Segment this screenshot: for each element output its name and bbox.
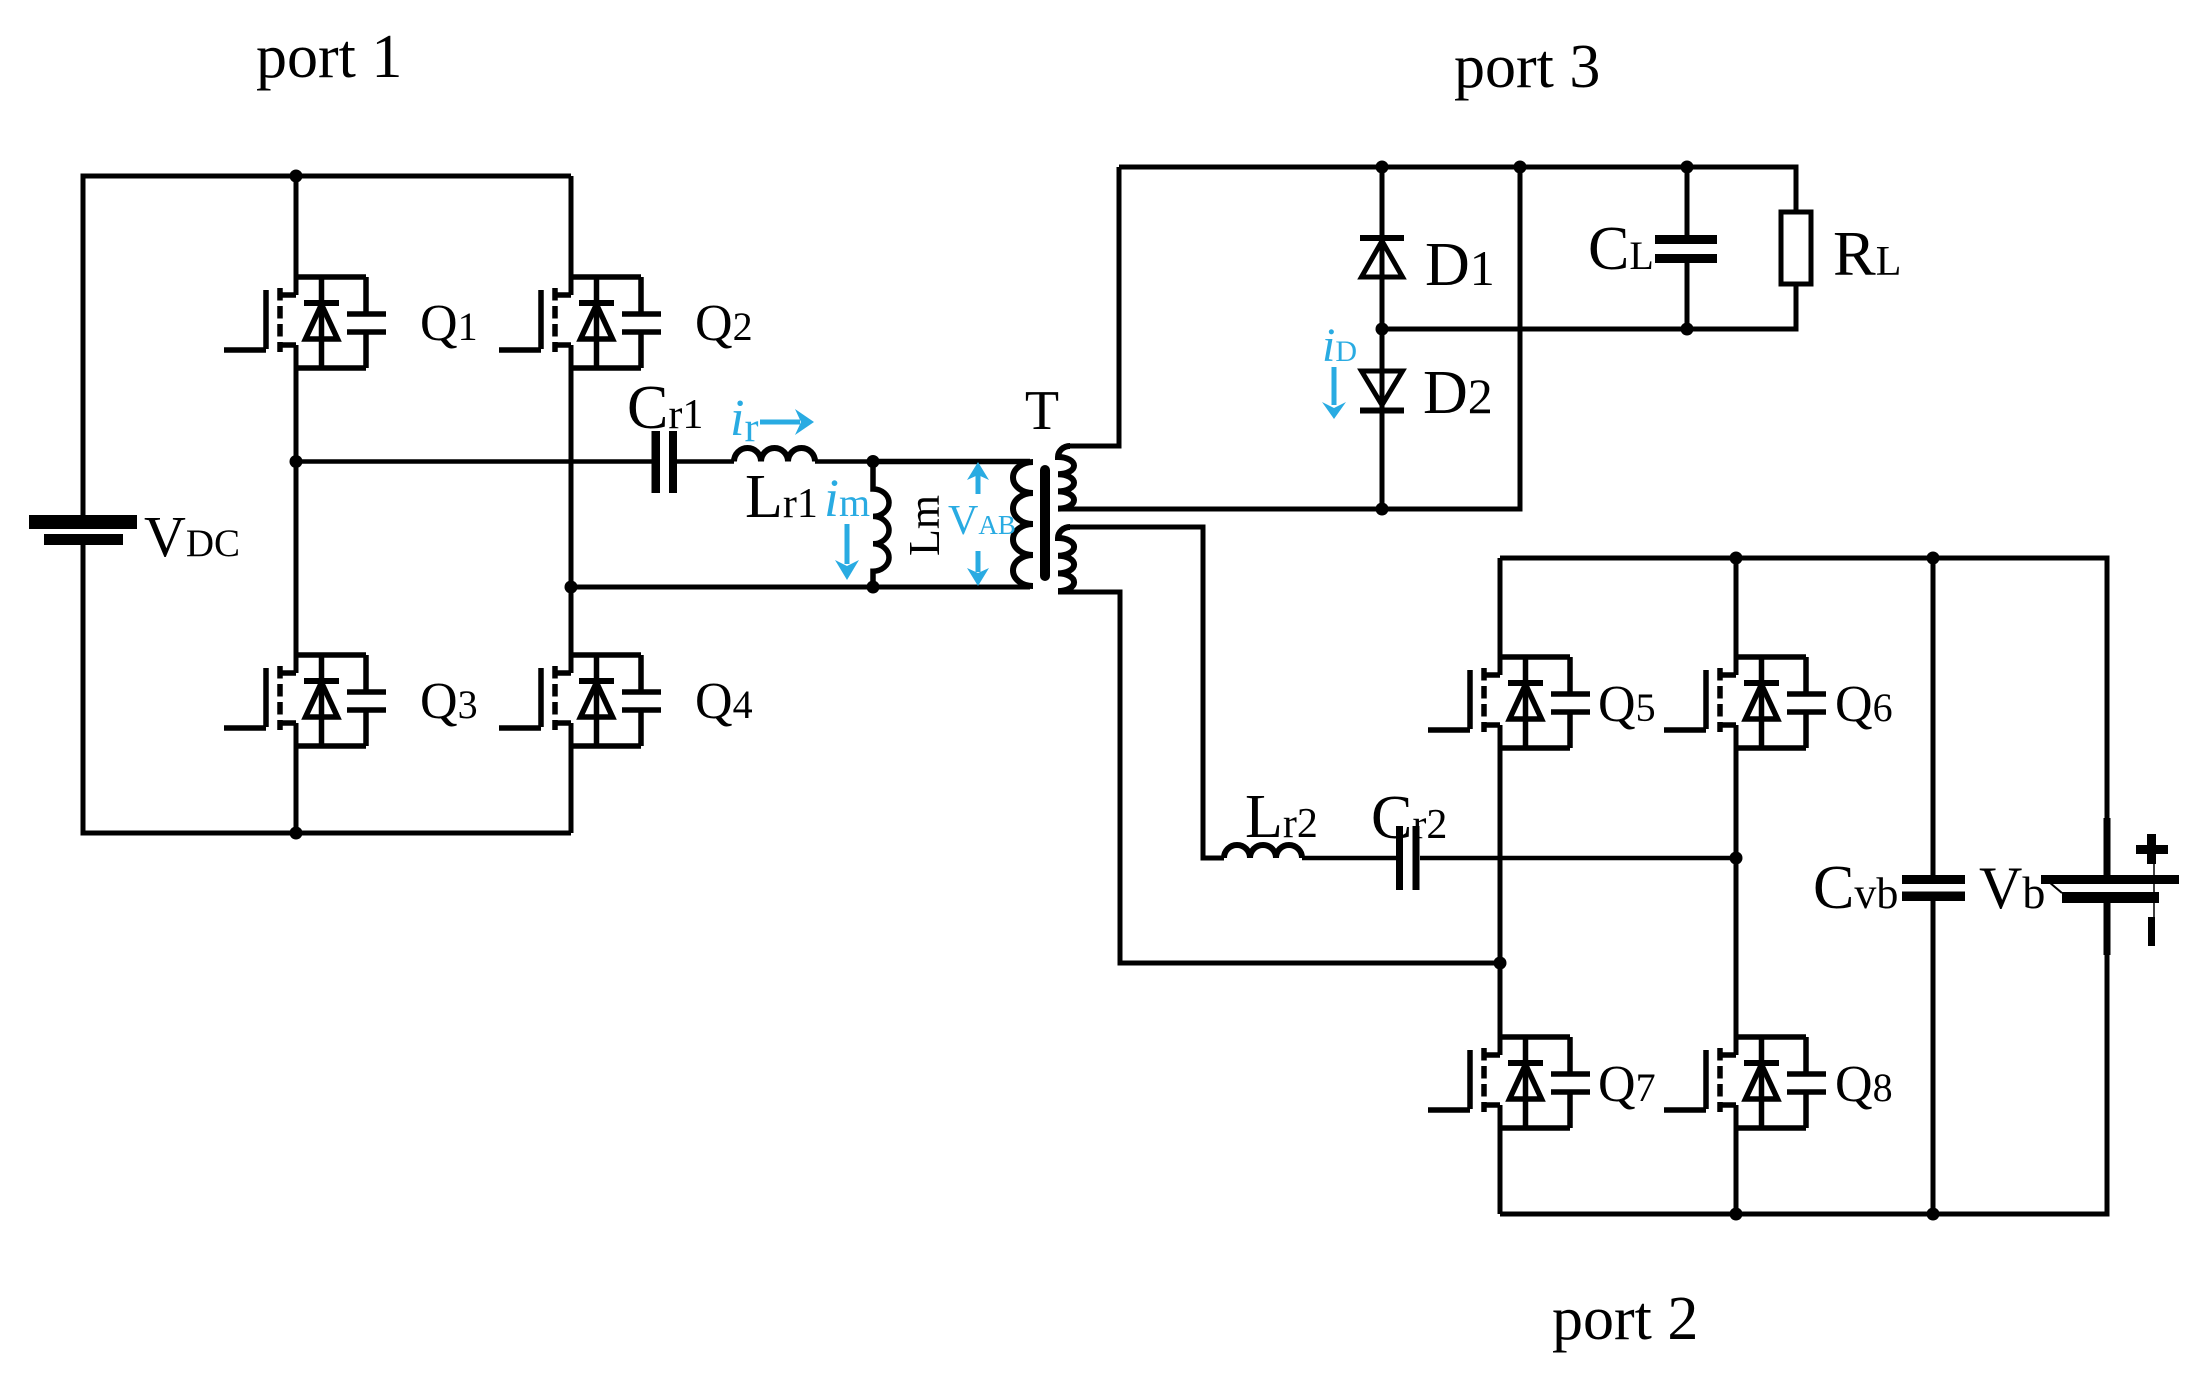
resistor RL	[1781, 212, 1811, 284]
wire: right leg Q8 source to bottom rail	[1734, 1105, 1739, 1214]
wire: node A to transformer primary top	[873, 459, 1030, 465]
transistor Q2	[499, 277, 661, 368]
wire: left leg drain of Q1	[294, 176, 299, 295]
arrow: VAB down (cyan)	[967, 551, 989, 586]
wire: Cr1 to inductor Lr1	[677, 459, 734, 464]
svg-text:D1: D1	[1425, 231, 1495, 299]
node: dot left leg midpoint port2	[1494, 957, 1507, 970]
wire: port3 top rail	[1119, 167, 1796, 212]
inductor Lr1	[734, 448, 815, 462]
node: dot Lm bottom	[867, 581, 880, 594]
wire: Lr2 to capacitor Cr2	[1302, 856, 1396, 861]
svg-text:port 2: port 2	[1552, 1285, 1698, 1353]
wire: left leg Q1 source to Q3 drain	[294, 345, 299, 673]
svg-text:Q5: Q5	[1598, 676, 1656, 733]
transistor Q3	[224, 655, 386, 746]
node: dot top rail / Cvb branch	[1927, 552, 1940, 565]
wire: output mid line D1/D2 junction to CL and RL	[1382, 284, 1796, 329]
wire: right leg drain of Q6	[1734, 558, 1739, 675]
node B: dot right leg midpoint	[565, 581, 578, 594]
node: dot bottom rail / Cvb branch	[1927, 1208, 1940, 1221]
svg-text:RL: RL	[1833, 218, 1901, 289]
label pointer line Vb	[2049, 882, 2062, 893]
wire: port2 bottom rail + Vb negative lead	[1500, 903, 2107, 1214]
wire: left leg Q7 source to bottom rail	[1498, 1105, 1503, 1214]
battery VDC	[29, 515, 137, 545]
svg-text:Cr2: Cr2	[1371, 784, 1447, 852]
svg-text:port 3: port 3	[1454, 33, 1600, 101]
transistor Q7	[1428, 1037, 1590, 1128]
node: dot bottom rail / right leg	[1730, 1208, 1743, 1221]
wire: secondary bottom winding bottom to left leg midpoint	[1058, 592, 1500, 963]
svg-text:Lr2: Lr2	[1245, 783, 1318, 851]
transistor Q8	[1664, 1037, 1826, 1128]
wire: secondary top winding bottom to return vertical	[1058, 167, 1520, 509]
transistor Q5	[1428, 657, 1590, 748]
transformer T core bar	[1040, 470, 1050, 576]
wire: secondary bottom winding top to Lr2	[1070, 527, 1224, 858]
svg-text:port 1: port 1	[256, 23, 402, 91]
svg-text:Cr1: Cr1	[627, 374, 703, 442]
wire: left leg drain of Q5	[1498, 558, 1503, 675]
svg-text:CL: CL	[1588, 215, 1654, 283]
wire: port1 bottom rail + battery negative lead	[83, 545, 571, 833]
node: dot Cr2 line / right leg midpoint	[1730, 852, 1743, 865]
svg-text:Q7: Q7	[1598, 1056, 1656, 1113]
svg-text:iD: iD	[1322, 319, 1357, 372]
svg-text:VAB: VAB	[948, 498, 1016, 544]
wire: right leg Q2 source to Q4 drain	[569, 345, 574, 673]
capacitor CL	[1655, 235, 1717, 263]
node: dot top rail / left leg	[290, 170, 303, 183]
battery Vb minus sign	[2148, 917, 2155, 946]
wire: Lr1 to node of Lm	[815, 459, 873, 464]
transformer T secondary winding bottom	[1058, 527, 1074, 591]
wire: left leg Q3 source to bottom rail	[294, 723, 299, 833]
svg-text:Q8: Q8	[1835, 1056, 1893, 1113]
node: dot rail / D1 branch	[1376, 161, 1389, 174]
node: dot rail / return vertical	[1514, 161, 1527, 174]
node: dot Lm top	[867, 455, 880, 468]
transistor Q1	[224, 277, 386, 368]
diode D1	[1360, 238, 1404, 277]
wire: D1 D2 branch vertical	[1380, 167, 1385, 509]
transistor Q6	[1664, 657, 1826, 748]
svg-text:im: im	[824, 468, 870, 528]
svg-text:VDC: VDC	[144, 504, 240, 569]
node: dot bottom rail / left leg	[290, 827, 303, 840]
wire: node B to transformer primary bottom	[571, 585, 1030, 590]
svg-text:Q3: Q3	[420, 673, 478, 730]
svg-text:Q4: Q4	[695, 673, 753, 730]
svg-text:T: T	[1025, 380, 1059, 442]
wire: right leg Q6 source to Q8 drain	[1734, 725, 1739, 1055]
wire: right leg Q4 source to bottom rail	[569, 723, 574, 833]
node A: dot left leg midpoint	[290, 455, 303, 468]
node: dot rail / CL branch	[1681, 161, 1694, 174]
svg-text:Cvb: Cvb	[1813, 854, 1898, 922]
arrow: iD direction down (cyan)	[1322, 367, 1346, 419]
wire: thin terminal line of Vb	[2153, 864, 2155, 917]
capacitor Cr2	[1396, 826, 1420, 890]
capacitor Cr1	[652, 431, 678, 493]
battery Vb	[2041, 818, 2179, 955]
wire: CL top lead	[1685, 167, 1690, 235]
svg-text:Q2: Q2	[695, 295, 753, 352]
arrow: VAB up (cyan)	[967, 462, 989, 494]
transistor Q4	[499, 655, 661, 746]
svg-text:D2: D2	[1423, 359, 1493, 427]
arrow: im direction down (cyan)	[835, 524, 859, 580]
transformer T primary winding	[1013, 462, 1033, 586]
wire: CL bottom lead	[1685, 263, 1690, 329]
node: dot mid line / CL bottom	[1681, 323, 1694, 336]
node: dot top rail / right leg	[1730, 552, 1743, 565]
capacitor Cvb	[1902, 875, 1965, 901]
svg-text:ir: ir	[730, 390, 758, 451]
wire: port1 top rail + battery positive lead	[83, 176, 571, 515]
battery Vb plus sign	[2136, 834, 2168, 864]
wire: port2 top rail + Vb positive lead	[1500, 558, 2107, 875]
svg-text:Q1: Q1	[420, 295, 478, 352]
wire: left leg Q5 source to Q7 drain	[1498, 725, 1503, 1055]
inductor Lr2	[1224, 845, 1302, 858]
svg-text:Lm: Lm	[900, 495, 949, 556]
wire: Cr2 to right leg midpoint	[1420, 856, 1736, 861]
diode D2	[1360, 371, 1404, 411]
svg-text:Q6: Q6	[1835, 676, 1893, 733]
svg-text:Vb: Vb	[1979, 855, 2045, 921]
svg-text:Lr1: Lr1	[745, 463, 818, 531]
node: dot D1-D2 junction	[1376, 323, 1389, 336]
wire: Cvb top lead	[1931, 558, 1936, 875]
wire: Cvb bottom lead	[1931, 901, 1936, 1214]
node: dot D2 anode / secondary return	[1376, 503, 1389, 516]
arrow: ir direction right (cyan)	[760, 409, 814, 435]
transformer T secondary winding top	[1058, 446, 1074, 509]
inductor Lm (magnetizing)	[873, 462, 889, 588]
wire: secondary top winding to port3 rail	[1070, 167, 1119, 446]
wire: right leg drain of Q2	[569, 176, 574, 295]
wire: node A to capacitor Cr1	[296, 459, 653, 464]
